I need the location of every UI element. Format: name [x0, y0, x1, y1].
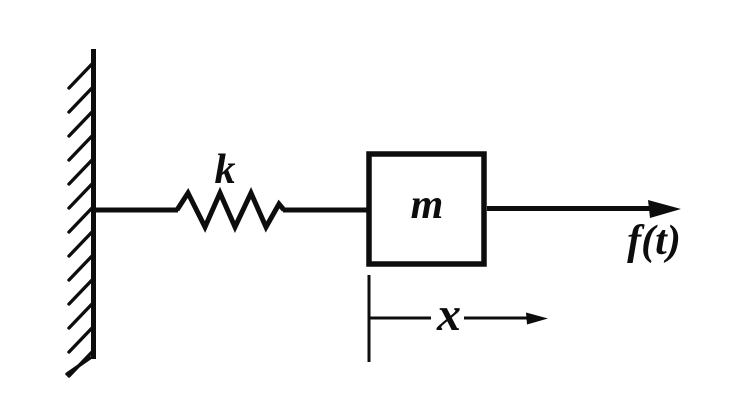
wall hatching [67, 64, 92, 376]
spring k [177, 193, 284, 227]
svg-text:f(t): f(t) [627, 218, 681, 264]
svg-text:m: m [411, 182, 444, 228]
wall [91, 49, 96, 359]
displacement arrow x [370, 317, 431, 320]
displacement reference line [368, 275, 371, 362]
svg-text:x: x [436, 288, 461, 341]
wire wall to spring [94, 208, 178, 213]
force arrow f(t) [487, 206, 652, 211]
mass m box [369, 154, 484, 264]
wire spring to mass [283, 208, 368, 213]
svg-text:k: k [215, 147, 236, 193]
